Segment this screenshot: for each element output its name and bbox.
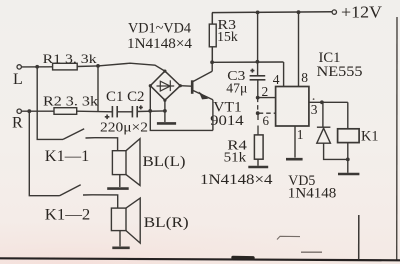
- op IC1 NE555 box: [276, 87, 309, 127]
- svg-text:6: 6: [263, 113, 270, 128]
- ground below bridge: [157, 122, 176, 125]
- svg-text:R2 3. 3k: R2 3. 3k: [43, 94, 98, 109]
- wire: mix node to bridge top: [98, 63, 165, 71]
- wire: R input to R2: [22, 110, 55, 112]
- page rule bottom: [0, 258, 400, 260]
- emitter arrow of VT1: [200, 93, 208, 99]
- svg-text:220μ×2: 220μ×2: [100, 119, 148, 134]
- svg-text:15k: 15k: [217, 29, 238, 44]
- wire: bridge left corner down and along bottom: [150, 86, 213, 131]
- svg-text:1N4148×4: 1N4148×4: [127, 36, 193, 52]
- node: VD5 junction on pin3 wire: [320, 100, 324, 104]
- wire: dashed link pin2 to pin6: [257, 98, 259, 114]
- wire: C2 to bridge left vertical: [137, 110, 165, 113]
- node: bridge top corner: [163, 70, 166, 73]
- wire: pin 3 lead to relay branch: [309, 101, 348, 103]
- power terminal +12V: [332, 10, 336, 14]
- faint artifact line: [277, 236, 300, 239]
- node: junction with C3 vertical: [256, 60, 260, 64]
- wire: R3 lower lead: [211, 47, 213, 63]
- wire: C3 branch from top rail: [257, 12, 259, 75]
- ground below R4: [248, 166, 268, 169]
- wire: +12V top rail: [212, 11, 332, 14]
- wire: relay K1 top lead: [347, 102, 349, 129]
- svg-text:3: 3: [311, 102, 318, 117]
- speaker BL(R): [111, 198, 140, 243]
- svg-text:K1—1: K1—1: [45, 148, 90, 165]
- input terminal L: [17, 65, 21, 69]
- resistor R3: [209, 24, 216, 47]
- wire: R branch down to K1-2: [29, 111, 59, 196]
- node: junction of C3 branch on top rail: [256, 11, 260, 15]
- svg-text:4: 4: [273, 72, 280, 87]
- faint artifact dash: [301, 251, 322, 253]
- resistor R4: [254, 135, 263, 159]
- ground below pin 1: [286, 158, 303, 161]
- wire: bridge right corner to base: [180, 85, 191, 88]
- speaker BL(L): [112, 139, 140, 186]
- node: relay/diode bottom junction: [346, 158, 350, 162]
- wire: BL(R) to ground: [119, 231, 121, 247]
- diode symbol inside bridge: [157, 80, 175, 91]
- wire: pin 2 lead: [258, 97, 276, 99]
- node: K1-1 branch junction: [35, 65, 39, 69]
- wire: K1-1 to BL(L): [95, 138, 118, 151]
- capacitor C3: [250, 69, 266, 80]
- svg-text:8: 8: [301, 70, 308, 85]
- svg-text:47μ: 47μ: [226, 80, 247, 95]
- svg-text:1N4148: 1N4148: [288, 186, 337, 202]
- svg-text:BL(R): BL(R): [144, 215, 189, 231]
- diode VD5: [317, 127, 331, 143]
- svg-text:K1—2: K1—2: [45, 206, 90, 223]
- node: junction at bridge-bottom vertical: [163, 109, 167, 113]
- svg-text:R1 3. 3k: R1 3. 3k: [43, 51, 98, 66]
- node: junction on bridge-left vertical: [148, 109, 152, 113]
- node: pin2 junction: [256, 96, 260, 100]
- resistor R1: [53, 63, 78, 70]
- transistor VT1: [192, 71, 213, 100]
- wire: pin 8 lead: [298, 12, 300, 86]
- svg-text:R: R: [12, 114, 23, 131]
- wire: R3 upper lead: [211, 13, 213, 25]
- ink smudge on bottom rule: [233, 256, 253, 260]
- node: collector / R3 / pin4 junction: [210, 60, 214, 64]
- svg-text:1: 1: [297, 127, 304, 142]
- wire: bridge bottom corner to ground: [164, 100, 166, 122]
- wire: L input to R1: [22, 66, 53, 68]
- bridge rectifier VD1-VD4 diamond: [150, 71, 180, 100]
- wire: drop to ground: [347, 159, 349, 172]
- svg-text:9014: 9014: [210, 113, 244, 129]
- svg-text:C1 C2: C1 C2: [106, 89, 145, 105]
- wire: C1 to C2: [117, 111, 132, 113]
- input terminal R: [17, 109, 21, 113]
- node: K1-2 branch junction: [27, 109, 31, 113]
- wire: L branch down to K1-1: [37, 67, 63, 140]
- node: speck above pin 3 label: [313, 98, 315, 100]
- wire: relay K1 bottom lead: [347, 143, 349, 160]
- ground below relay: [338, 173, 359, 176]
- svg-text:2: 2: [262, 84, 269, 99]
- svg-text:51k: 51k: [224, 151, 247, 166]
- capacitor C1: [105, 106, 117, 119]
- wire: BL(L) to ground: [119, 175, 121, 187]
- wire: dashed pin 6 lead: [259, 112, 276, 114]
- page border right: [396, 17, 398, 260]
- svg-text:K1: K1: [361, 129, 379, 145]
- svg-text:BL(L): BL(L): [143, 154, 186, 170]
- ground below BL(R): [112, 247, 129, 250]
- node: bridge right corner: [179, 84, 182, 87]
- wire: mix node down to R channel: [97, 66, 99, 112]
- wire: R4 upper lead: [257, 113, 259, 135]
- wire: pin 4 lead: [283, 62, 285, 87]
- relay K1: [338, 129, 360, 143]
- node: bridge bottom corner: [163, 99, 166, 102]
- wire: VD5 cathode drop: [324, 143, 348, 159]
- node: bridge left corner: [149, 84, 152, 87]
- switch K1-2: [60, 185, 93, 196]
- wire: VD5 anode riser: [322, 102, 324, 127]
- wire: K1-2 to BL(R): [92, 195, 118, 208]
- wire: mix node to C1: [98, 111, 112, 113]
- svg-text:VD1~VD4: VD1~VD4: [128, 21, 191, 37]
- wire: pin 1 lead: [294, 126, 296, 158]
- wire: R1 to mix node: [77, 65, 98, 68]
- svg-text:1N4148×4: 1N4148×4: [200, 172, 273, 188]
- node: junction of pin-8 branch on top rail: [297, 10, 301, 14]
- switch K1-1: [63, 129, 95, 140]
- wire: horizontal run to pin 4: [212, 61, 283, 63]
- column rule stub: [358, 215, 360, 260]
- ground below BL(L): [107, 187, 129, 190]
- capacitor C2: [132, 105, 142, 117]
- wire: R2 to mix node: [77, 110, 98, 112]
- node: pin6 junction: [256, 111, 260, 115]
- wire: R4 lower lead: [257, 159, 259, 166]
- resistor R2: [54, 108, 77, 115]
- wire: emitter drop: [212, 100, 214, 131]
- svg-text:NE555: NE555: [317, 64, 363, 80]
- node: L/R mixing node: [96, 64, 100, 68]
- svg-text:L: L: [13, 71, 23, 88]
- wire: collector riser: [211, 62, 213, 71]
- svg-text:+12V: +12V: [341, 3, 383, 22]
- wire: C3 to pin 2: [257, 80, 259, 98]
